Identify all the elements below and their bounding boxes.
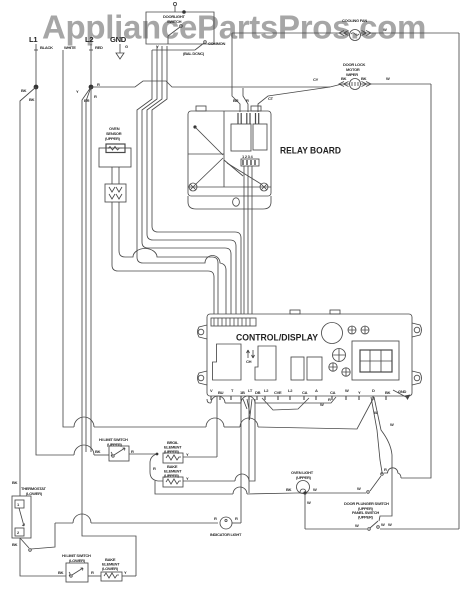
svg-text:BK: BK [12,542,18,547]
wire pin to door plunger R [371,397,382,474]
svg-text:RED: RED [95,45,103,50]
crossed circle a [348,326,356,334]
wire neutral white [63,50,374,429]
svg-text:CVE: CVE [274,390,282,395]
svg-text:1 2 3 4: 1 2 3 4 [242,154,254,159]
wire [147,46,236,314]
wire [251,166,253,314]
svg-text:BK: BK [385,390,391,395]
svg-text:R: R [235,516,238,521]
svg-text:(LOWER): (LOWER) [102,566,119,571]
svg-text:W: W [355,523,359,528]
svg-text:W: W [388,522,392,527]
hi limit switch lower [58,553,101,582]
bake element upper [153,399,255,487]
svg-text:LT: LT [248,388,253,393]
svg-text:BLACK: BLACK [40,45,53,50]
wire [152,46,241,314]
svg-text:(BAL DCNC): (BAL DCNC) [183,51,205,56]
svg-text:BR: BR [233,98,239,103]
wire [119,202,218,314]
wire oven light feed [248,396,250,493]
svg-text:CH: CH [246,359,252,364]
wire right side fan down [458,33,460,529]
svg-text:BK: BK [286,487,292,492]
svg-text:R: R [214,516,217,521]
wire hop to door plunger [384,468,401,478]
svg-text:(LOWER): (LOWER) [69,558,86,563]
svg-text:(LOWER): (LOWER) [26,491,43,496]
svg-text:CY: CY [313,77,319,82]
gnd symbol bottom right [393,389,411,400]
svg-text:WIPER: WIPER [346,72,358,77]
node L2 junction [89,85,94,90]
cooling fan [232,18,459,41]
svg-text:BR: BR [84,98,90,103]
svg-text:RELAY BOARD: RELAY BOARD [280,146,341,156]
relay board outline [188,106,271,209]
svg-text:R: R [328,397,331,402]
oven light upper [286,470,360,495]
svg-text:W: W [307,500,311,505]
thermostat NO branch to indicator [20,523,55,551]
hi limit switch upper [95,437,157,461]
wire [247,166,249,314]
wire fan feed to relay [232,33,240,112]
terminal GND [110,35,128,59]
wire L1 branch to thermostat [20,87,36,496]
relay K1 [231,124,251,151]
wire L2 branch BR [84,87,91,452]
svg-text:W: W [381,522,385,527]
wire indicator feed [55,514,218,523]
indicator light [210,516,242,537]
relay board inner [188,111,271,191]
svg-text:CA: CA [330,390,336,395]
arrows symbol [246,350,255,364]
thermostat lower [12,480,46,547]
wire indicator up [240,396,242,523]
svg-text:2: 2 [17,530,20,535]
wire pin link [262,398,309,410]
svg-text:R: R [131,449,134,454]
svg-text:Y: Y [76,89,79,94]
big circle [322,323,343,344]
svg-text:(UPPER): (UPPER) [105,136,121,141]
svg-text:R: R [153,466,156,471]
broil element upper [156,440,217,463]
panel switch [305,510,459,530]
wire CT relay to door lock [258,87,330,112]
wire L2 to relay pin [243,88,249,112]
svg-text:BK: BK [12,480,18,485]
svg-text:1B: 1B [240,390,245,395]
wire pin slants cluster [243,399,252,420]
board top connector [211,318,256,326]
svg-text:WHITE: WHITE [64,45,76,50]
svg-text:W: W [390,422,394,427]
wire pin to panel switch [374,397,394,521]
svg-text:GND: GND [110,35,127,44]
svg-text:Y: Y [186,476,189,481]
svg-text:L2: L2 [85,35,93,44]
relay K2 [253,124,267,150]
wire L2 branch R down [91,87,97,452]
svg-text:BK: BK [29,97,35,102]
relay output wires down [243,166,245,314]
terminal L2 [85,35,103,50]
svg-text:T: T [231,388,234,393]
sensor connector [105,167,126,202]
wire lamp to panel switch [305,493,311,529]
svg-text:Y: Y [186,452,189,457]
svg-text:GND: GND [398,389,407,394]
wire [142,46,231,314]
wire L1 down [35,50,37,87]
svg-text:R: R [94,94,97,99]
svg-text:BK: BK [341,76,347,81]
svg-text:W: W [386,76,390,81]
board bottom pin ticks [211,396,386,400]
svg-text:W: W [357,486,361,491]
display window [352,341,399,380]
svg-text:BU: BU [218,390,224,395]
wire L1 main to hi-limit upper [36,87,109,455]
terminal L1 [29,35,53,50]
svg-text:W: W [383,27,387,32]
loop to bake upper [150,454,163,481]
wire bundle top verticals [137,50,226,314]
svg-text:CT: CT [268,96,274,101]
svg-text:L2: L2 [288,388,293,393]
wire broil Y up [216,396,218,457]
door lock motor wiper [313,62,431,90]
svg-text:W: W [345,388,349,393]
sensor wires to board [112,202,214,314]
component shape 2 [255,346,276,380]
svg-text:(UPPER): (UPPER) [296,475,312,480]
door light switch symbol [168,25,182,44]
svg-text:R: R [91,570,94,575]
svg-text:W: W [313,487,317,492]
node L1 junction [34,85,39,90]
svg-text:COMMON: COMMON [208,41,226,46]
relay pins hatched [238,113,259,124]
svg-text:A: A [315,388,318,393]
svg-text:DB: DB [255,390,261,395]
svg-text:BK: BK [21,88,27,93]
svg-text:R: R [97,82,100,87]
svg-text:Y: Y [358,390,361,395]
wire thermostat down [20,538,66,576]
bake element lower [101,557,136,581]
svg-text:BK: BK [58,570,64,575]
wire L2 to relay and door lock [91,81,342,87]
component shape 3 [291,357,304,380]
switch common (balance) [152,41,226,56]
svg-text:1: 1 [17,502,20,507]
crossed circle e [342,368,350,376]
svg-text:D: D [372,388,375,393]
svg-text:AppliancePartsPros.com: AppliancePartsPros.com [42,9,426,46]
svg-text:INDICATOR LIGHT: INDICATOR LIGHT [210,532,242,537]
svg-text:R: R [246,98,249,103]
svg-text:G: G [125,44,128,49]
wire L2 branch Y to bake lower [76,87,136,576]
crossed circle d [329,363,337,371]
svg-text:CONTROL/DISPLAY: CONTROL/DISPLAY [236,333,319,343]
wire door lock down right [401,84,431,478]
svg-text:Y: Y [124,570,127,575]
oven sensor upper [99,126,131,167]
wire L2 down [90,50,92,87]
top box door light switch [146,2,214,44]
svg-text:L1: L1 [29,35,38,44]
svg-text:V: V [210,388,213,393]
svg-text:SWITCH: SWITCH [167,19,182,24]
wire bumps under board [207,396,336,403]
svg-text:BK: BK [95,449,101,454]
svg-text:(UPPER): (UPPER) [358,515,374,520]
board bottom pin labels [210,388,391,395]
terminal WHITE [64,45,76,50]
control display board outline [198,310,422,396]
svg-text:L2: L2 [264,388,269,393]
crossed circle b [361,326,369,334]
svg-text:R: R [384,467,387,472]
wire lamp feed line [155,481,296,494]
svg-text:BK: BK [361,76,367,81]
door plunger switch [344,467,389,511]
svg-text:CA: CA [302,390,308,395]
component shape 4 [307,357,322,380]
crossed circle c [333,349,346,362]
component shape 1 [213,344,242,380]
svg-text:COOLING FAN: COOLING FAN [342,18,367,23]
relay connector 1234 [241,154,259,166]
